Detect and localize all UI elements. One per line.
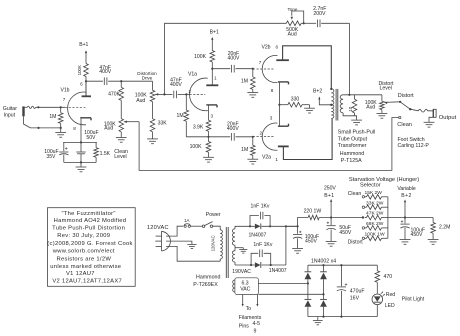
svg-text:1N4007: 1N4007 — [269, 268, 287, 274]
svg-text:Level: Level — [380, 85, 392, 91]
svg-text:100K: 100K — [77, 65, 82, 75]
svg-text:Rev: 30 July, 2009: Rev: 30 July, 2009 — [57, 233, 110, 239]
svg-text:V1 12AU7: V1 12AU7 — [66, 271, 95, 277]
svg-text:P-T125A: P-T125A — [341, 158, 362, 164]
svg-text:2.2M: 2.2M — [439, 224, 450, 230]
svg-text:1N4002 x4: 1N4002 x4 — [311, 259, 336, 265]
svg-text:V1a: V1a — [188, 71, 197, 77]
svg-text:10: 10 — [348, 106, 353, 112]
svg-text:Aud: Aud — [136, 98, 145, 104]
svg-text:P-T269EX: P-T269EX — [193, 282, 218, 288]
svg-text:Hammond: Hammond — [340, 151, 364, 157]
svg-text:1.5K: 1.5K — [100, 151, 111, 157]
svg-text:Small Push-Pull: Small Push-Pull — [338, 129, 375, 135]
svg-text:Tone: Tone — [288, 7, 298, 12]
svg-text:Power: Power — [206, 212, 221, 218]
svg-text:V2 12AU7,12AT7,12AX7: V2 12AU7,12AT7,12AX7 — [52, 278, 122, 284]
svg-text:8: 8 — [271, 88, 274, 93]
svg-text:33K 2W: 33K 2W — [366, 200, 384, 206]
svg-text:B+2: B+2 — [313, 88, 322, 94]
svg-text:Distort: Distort — [398, 93, 414, 99]
svg-text:Output: Output — [439, 115, 457, 121]
svg-text:VAC: VAC — [240, 287, 250, 293]
svg-text:400V: 400V — [170, 82, 182, 88]
svg-text:68K 2W: 68K 2W — [366, 221, 384, 227]
svg-text:6: 6 — [276, 44, 279, 49]
svg-text:Aud: Aud — [366, 104, 375, 110]
svg-text:1nF 1Kv: 1nF 1Kv — [251, 204, 270, 210]
svg-text:3: 3 — [211, 113, 214, 118]
svg-text:100K: 100K — [190, 144, 202, 150]
svg-text:1: 1 — [275, 157, 278, 162]
svg-text:www.solorb.com/elect: www.solorb.com/elect — [52, 248, 115, 254]
svg-text:Tube Output: Tube Output — [338, 136, 368, 142]
svg-text:2: 2 — [189, 89, 192, 94]
svg-text:Guitar: Guitar — [3, 106, 17, 112]
svg-text:200V: 200V — [313, 11, 326, 17]
svg-text:1nF 1Kv: 1nF 1Kv — [253, 242, 272, 248]
svg-text:(c)2008,2009 G. Forrest Cook: (c)2008,2009 G. Forrest Cook — [47, 241, 132, 247]
svg-text:15K 2W: 15K 2W — [365, 190, 383, 196]
svg-text:1A: 1A — [184, 218, 189, 223]
svg-text:1M: 1M — [177, 113, 184, 119]
svg-text:450V: 450V — [305, 239, 317, 245]
svg-text:4-5: 4-5 — [253, 321, 261, 327]
svg-text:120VAC: 120VAC — [211, 235, 216, 251]
svg-text:1N4007: 1N4007 — [248, 232, 266, 238]
svg-text:Drive: Drive — [142, 76, 153, 81]
svg-text:100K: 100K — [194, 54, 206, 60]
svg-text:47K 2W: 47K 2W — [366, 211, 384, 217]
svg-text:Transformer: Transformer — [338, 143, 367, 149]
svg-text:Hammond AO42 Modified: Hammond AO42 Modified — [54, 218, 127, 224]
svg-text:35V: 35V — [46, 154, 56, 160]
svg-text:B+1: B+1 — [79, 42, 88, 48]
svg-text:To: To — [246, 306, 252, 312]
svg-text:Red: Red — [386, 292, 396, 298]
svg-text:9: 9 — [254, 328, 257, 334]
svg-text:Hammond: Hammond — [196, 275, 220, 281]
svg-text:470uF: 470uF — [350, 289, 365, 295]
svg-text:120VAC: 120VAC — [147, 225, 169, 231]
svg-text:V2b: V2b — [261, 45, 270, 51]
svg-text:B+1: B+1 — [210, 29, 219, 35]
svg-text:2: 2 — [260, 131, 263, 136]
svg-text:250V: 250V — [324, 186, 336, 192]
svg-text:190VAC: 190VAC — [232, 269, 251, 275]
svg-text:400V: 400V — [99, 69, 111, 75]
svg-text:Resistors are 1/2W: Resistors are 1/2W — [56, 257, 111, 263]
svg-text:B+1: B+1 — [324, 193, 334, 199]
svg-text:6: 6 — [80, 82, 83, 87]
svg-text:1: 1 — [214, 76, 217, 81]
svg-text:Pilot Light: Pilot Light — [402, 297, 425, 303]
svg-text:220 1W: 220 1W — [304, 208, 322, 214]
svg-text:8: 8 — [73, 126, 76, 131]
svg-text:Selector: Selector — [360, 183, 381, 189]
svg-text:"The Fuzzmitilator": "The Fuzzmitilator" — [61, 211, 115, 217]
svg-text:Aud: Aud — [288, 31, 297, 37]
svg-text:Aud: Aud — [104, 126, 113, 132]
svg-text:Filaments: Filaments — [239, 315, 262, 321]
svg-text:unless marked otherwise: unless marked otherwise — [50, 264, 121, 270]
svg-text:LED: LED — [385, 303, 395, 309]
svg-text:Level: Level — [114, 154, 126, 160]
svg-text:330: 330 — [291, 96, 300, 102]
svg-text:470: 470 — [384, 274, 393, 280]
svg-text:1M: 1M — [49, 114, 56, 120]
svg-text:Clean: Clean — [397, 122, 412, 128]
svg-text:400V: 400V — [228, 55, 240, 61]
svg-text:100K 1W: 100K 1W — [365, 232, 386, 238]
svg-text:50V: 50V — [86, 135, 96, 141]
svg-text:16V: 16V — [350, 296, 360, 302]
svg-text:Carling 112-P: Carling 112-P — [398, 143, 430, 149]
svg-text:Variable: Variable — [397, 186, 415, 192]
svg-text:3: 3 — [270, 116, 273, 121]
svg-text:Tube Push-Pull Distortion: Tube Push-Pull Distortion — [52, 225, 125, 231]
svg-text:450V: 450V — [339, 230, 351, 236]
svg-text:3.9K: 3.9K — [193, 125, 204, 131]
svg-text:V1b: V1b — [60, 88, 69, 94]
svg-text:7: 7 — [259, 60, 262, 65]
svg-text:1M: 1M — [241, 147, 248, 153]
svg-text:7: 7 — [63, 97, 66, 102]
svg-text:450V: 450V — [411, 232, 423, 238]
svg-text:Input: Input — [4, 113, 16, 119]
svg-text:400V: 400V — [227, 126, 239, 132]
svg-text:V2a: V2a — [262, 154, 271, 160]
svg-text:B+2: B+2 — [401, 193, 411, 199]
svg-text:33K: 33K — [158, 121, 168, 127]
svg-text:Pins: Pins — [239, 324, 249, 330]
svg-text:Clean: Clean — [348, 191, 362, 197]
svg-text:470K: 470K — [108, 91, 120, 97]
svg-text:1M: 1M — [241, 79, 248, 85]
svg-text:Distort: Distort — [348, 239, 364, 245]
